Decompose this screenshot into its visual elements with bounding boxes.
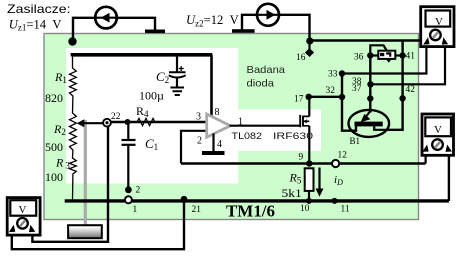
vertical line 41-42-collector (388, 41, 403, 130)
wire node22 to R4 to opamp pin3 (107, 121, 207, 123)
diode socket bracket (370, 45, 387, 53)
svg-text:17: 17 (294, 95, 304, 105)
white inset A (66, 48, 238, 184)
resistor chain R1 R2 R3 vertical (70, 56, 77, 201)
vertical line 33-32-base (342, 74, 356, 131)
gray wiper shaft of potentiometer (84, 120, 87, 226)
MOSFET IRF630 symbol (299, 115, 301, 127)
node 32 dot (339, 94, 345, 100)
node 12 socket ring (332, 160, 339, 167)
bottom rail (65, 199, 449, 202)
diode clip triangle below (386, 59, 392, 63)
diode under test box (378, 51, 395, 59)
svg-text:42: 42 (406, 85, 416, 95)
wire node22 down to V3 right (32, 127, 108, 242)
node junction at Uz1 (68, 37, 76, 45)
wire up to V2 left terminal (425, 147, 427, 164)
iD current arrow (318, 168, 320, 191)
potentiometer knob (68, 225, 102, 238)
svg-text:4: 4 (217, 139, 222, 150)
svg-text:TM1/6: TM1/6 (226, 202, 275, 221)
svg-text:3: 3 (196, 112, 201, 123)
transistor B1 circle (349, 110, 390, 137)
opamp pin4 ground lead (212, 134, 214, 152)
wire rail to V2 right terminal (448, 147, 450, 201)
capacitor C2 plates (169, 71, 186, 73)
node 33 dot (339, 70, 345, 76)
wire 17 to 32 (309, 96, 342, 98)
node 41 dot (399, 52, 405, 58)
svg-text:22: 22 (111, 112, 121, 122)
feedback wire pin2 to node12 rail (181, 162, 426, 164)
svg-text:100: 100 (45, 170, 63, 184)
opamp pin2 wire (181, 131, 207, 164)
wire diode box to 41 (395, 54, 402, 56)
svg-text:Uz1=14 V: Uz1=14 V (9, 17, 62, 32)
svg-text:2: 2 (197, 136, 202, 147)
current source circle 1 (95, 7, 117, 29)
B1 emitter diagonal with arrow (365, 112, 371, 119)
node 1 socket ring on rail (125, 196, 132, 203)
svg-text:B1: B1 (350, 136, 361, 146)
ground G2 (232, 29, 255, 33)
wire 33 to V1 left (342, 42, 426, 74)
svg-text:9: 9 (299, 153, 304, 163)
wire 36 to diode box (370, 54, 378, 56)
C2 bottom lead (176, 79, 178, 88)
node 9 junction dot (306, 160, 312, 166)
node 11 dot (332, 198, 338, 204)
svg-text:10: 10 (300, 204, 310, 214)
opamp pin8 supply line (210, 55, 213, 117)
resistor R5 box (305, 168, 314, 191)
svg-text:16: 16 (296, 53, 306, 63)
green board TM1/6 (44, 34, 419, 220)
svg-text:100µ: 100µ (139, 89, 164, 103)
potentiometer wiper arrow (82, 122, 107, 124)
ground at pin4 (202, 151, 225, 155)
node 36 dot (367, 52, 373, 58)
B1 collector lead (374, 126, 388, 129)
opamp output wire to MOSFET gate (230, 125, 301, 127)
C1 top lead (127, 124, 129, 139)
current source circle 2 (257, 4, 279, 26)
svg-text:Zasilacze:: Zasilacze: (7, 2, 71, 16)
ground G1 (145, 30, 165, 34)
B1 base bar (355, 122, 383, 127)
node 42 dot (399, 95, 405, 101)
wire source1 left (73, 18, 155, 42)
node 10 dot (306, 198, 312, 204)
svg-text:5k1: 5k1 (282, 186, 302, 200)
svg-text:IRF630: IRF630 (273, 131, 313, 142)
svg-text:11: 11 (341, 205, 350, 215)
svg-text:37: 37 (352, 84, 362, 94)
C1 bottom lead (127, 146, 129, 188)
resistor R4 zigzag (137, 118, 155, 125)
wire source2 (242, 15, 310, 40)
node 21 dot (181, 196, 188, 203)
svg-text:8: 8 (215, 107, 220, 118)
svg-text:33: 33 (328, 70, 338, 80)
MOSFET source line down (308, 126, 310, 165)
earth ground under C2 (171, 88, 185, 96)
diode symbol inside (380, 53, 384, 56)
voltmeter V2 (422, 114, 454, 155)
svg-text:36: 36 (354, 53, 364, 63)
white inset B (238, 110, 321, 152)
wire node21 down to V3 left (12, 200, 184, 249)
node 2 dot (125, 186, 132, 193)
svg-text:Badana: Badana (247, 64, 286, 76)
MOSFET drain line from node 17 (308, 97, 310, 117)
svg-text:V: V (434, 124, 442, 136)
voltmeter V3 (7, 198, 40, 236)
svg-text:41: 41 (406, 52, 416, 62)
svg-text:500: 500 (45, 140, 63, 154)
wire node16 to V1 left terminal (309, 39, 426, 41)
node 38 dot (367, 81, 373, 87)
svg-text:32: 32 (326, 86, 336, 96)
node 37 dot (367, 95, 373, 101)
svg-text:V: V (19, 204, 27, 216)
node 22 socket ring (103, 119, 111, 127)
R5 bottom lead (308, 191, 310, 201)
C1 junction dot (125, 119, 131, 125)
vertical line 36-38-37-emitter (369, 56, 371, 113)
node 16 junction (306, 37, 313, 44)
C2 lead from rail (176, 56, 178, 72)
svg-text:12: 12 (338, 150, 348, 160)
voltmeter V1 (421, 7, 454, 47)
capacitor C1 plates (122, 139, 136, 141)
svg-text:V: V (435, 16, 443, 28)
terminal 16 stub + diamond (308, 43, 310, 50)
svg-text:TL082: TL082 (232, 131, 263, 142)
svg-text:2: 2 (136, 186, 141, 196)
svg-text:820: 820 (45, 91, 63, 105)
+14V thick rail (73, 55, 213, 57)
op-amp U1 triangle (207, 114, 231, 137)
wire 37/38 to V1 right (371, 42, 446, 84)
svg-text:dioda: dioda (247, 78, 275, 90)
svg-text:Uz2=12 V: Uz2=12 V (186, 13, 239, 28)
node 17 dot (306, 94, 312, 100)
C2 plus sign (179, 66, 184, 71)
svg-text:21: 21 (192, 205, 202, 215)
svg-text:1: 1 (133, 205, 138, 215)
